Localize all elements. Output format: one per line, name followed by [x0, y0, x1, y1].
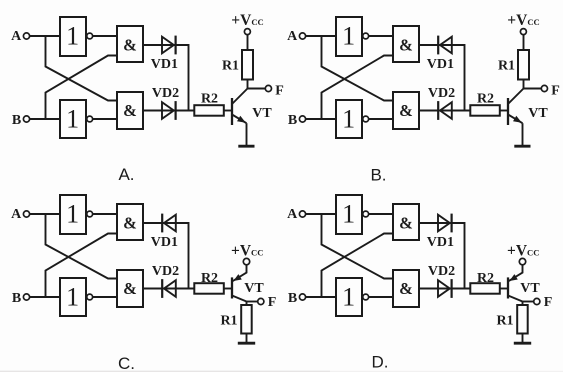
transistor VT base bar (option D): [507, 277, 509, 298]
svg-text:A: A: [287, 207, 298, 222]
wire: G2 out to R2 (option A): [143, 110, 194, 112]
inverter U2 box (option B): [336, 100, 362, 138]
svg-text:F: F: [275, 83, 284, 98]
AND gate G2 box (option C): [117, 270, 143, 307]
svg-text:R2: R2: [201, 91, 218, 106]
inverter U1 box (option C): [60, 195, 86, 234]
resistor R1 (option B): [518, 50, 529, 80]
wire: collector to F (option C): [247, 301, 258, 303]
inverter U2 output bubble (option D): [363, 294, 369, 300]
wire: A to inverter U1 (option A): [30, 35, 60, 37]
svg-text:B: B: [12, 291, 21, 306]
wire: R1 to +Vcc terminal (option A): [247, 35, 249, 50]
wire: node A down-cross to AND G2 input (option A): [46, 36, 118, 101]
svg-text:VT: VT: [528, 106, 548, 121]
ground (option A): [238, 145, 254, 148]
svg-text:VD1: VD1: [151, 235, 178, 250]
AND gate G1 box (option B): [393, 26, 419, 62]
transistor VT emitter arrow (option A): [237, 116, 246, 123]
AND gate G1 box (option A): [117, 26, 143, 62]
transistor VT base bar (option A): [231, 98, 233, 125]
transistor VT emitter arrow (option C): [233, 274, 242, 281]
diode VD1 (option A): [162, 37, 174, 54]
diode VD1 (option D): [438, 215, 450, 232]
wire: node B up-cross to AND G1 input (option C): [46, 234, 118, 298]
svg-text:&: &: [123, 213, 137, 232]
wire: collector node to R1 (option C): [246, 302, 248, 306]
svg-text:VD1: VD1: [427, 57, 454, 72]
inverter U2 output bubble (option B): [363, 116, 369, 122]
resistor R1 (option A): [242, 50, 253, 80]
transistor VT emitter lead (option C): [232, 265, 247, 282]
inverter U2 box (option D): [336, 278, 362, 316]
output terminal F (option D): [534, 298, 540, 304]
wire: R1 to +Vcc terminal (option B): [523, 35, 525, 50]
svg-text:R2: R2: [477, 271, 494, 286]
wire: U1 out to AND G1 (option B): [369, 35, 393, 37]
wire: node B up-cross to AND G1 input (option B): [322, 56, 394, 120]
wire: A to inverter U1 (option D): [306, 213, 336, 215]
inverter U1 box (option B): [336, 17, 362, 56]
inverter U1 output bubble (option C): [87, 211, 93, 217]
wire: node B up-cross to AND G1 input (option A): [46, 56, 118, 120]
svg-text:1: 1: [342, 199, 355, 228]
svg-text:VD1: VD1: [151, 57, 178, 72]
svg-text:1: 1: [342, 282, 355, 311]
resistor R1 (option D): [517, 305, 528, 334]
wire: R2 to base of VT (option B): [500, 110, 508, 112]
svg-text:F: F: [544, 295, 553, 310]
AND gate G1 box (option C): [117, 204, 143, 240]
svg-text:&: &: [123, 35, 137, 54]
svg-text:B: B: [12, 113, 21, 128]
svg-text:D.: D.: [372, 353, 389, 372]
wire: node A down-cross to AND G2 input (option B): [322, 36, 394, 101]
svg-text:A: A: [11, 29, 22, 44]
wire: G1 out through VD1 to join node (option D): [419, 223, 465, 289]
wire: A to inverter U1 (option C): [30, 213, 60, 215]
svg-text:F: F: [551, 83, 560, 98]
svg-text:1: 1: [66, 199, 79, 228]
svg-text:&: &: [123, 101, 137, 120]
transistor VT collector lead (option C): [232, 296, 247, 302]
wire: emitter down to ground (option B): [522, 123, 524, 146]
svg-text:F: F: [268, 295, 277, 310]
diode VD1 (option B): [440, 37, 452, 54]
inverter U1 output bubble (option A): [87, 33, 93, 39]
transistor VT base bar (option C): [231, 277, 233, 298]
wire: G1 out through VD1 to join node (option A): [143, 45, 189, 111]
transistor VT emitter arrow (option D): [509, 274, 518, 281]
svg-text:R1: R1: [220, 314, 237, 329]
wire: U1 out to AND G1 (option C): [93, 213, 117, 215]
transistor VT collector lead (option A): [232, 89, 248, 105]
svg-text:1: 1: [66, 104, 79, 133]
diode VD2 (option C): [164, 280, 176, 297]
svg-text:C.: C.: [118, 354, 135, 372]
transistor VT collector lead (option D): [508, 296, 523, 302]
wire: U2 out to AND G2 (option A): [93, 118, 117, 120]
diode VD1 (option C): [164, 215, 176, 232]
svg-text:VD2: VD2: [152, 86, 179, 101]
wire: collector to R1 (option B): [523, 80, 525, 89]
svg-text:B.: B.: [370, 166, 386, 185]
+Vcc terminal (option B): [520, 29, 526, 35]
transistor VT collector lead (option B): [508, 89, 524, 105]
input terminal B (option B): [299, 116, 305, 122]
wire: U1 out to AND G1 (option A): [93, 35, 117, 37]
output terminal F (option B): [541, 85, 547, 91]
wire: R2 to base of VT (option A): [224, 110, 232, 112]
svg-text:1: 1: [66, 21, 79, 50]
svg-text:+VCC: +VCC: [507, 12, 539, 29]
svg-text:A.: A.: [118, 165, 134, 184]
inverter U1 output bubble (option D): [363, 211, 369, 217]
input terminal A (option D): [299, 211, 305, 217]
ground (option D): [514, 342, 531, 345]
wire: U2 out to AND G2 (option D): [369, 296, 393, 298]
wire: B to inverter U2 (option C): [30, 296, 60, 298]
svg-text:R2: R2: [477, 91, 494, 106]
inverter U1 box (option A): [60, 17, 86, 56]
input terminal B (option A): [23, 116, 29, 122]
svg-text:1: 1: [342, 104, 355, 133]
wire: node A down-cross to AND G2 input (option C): [46, 214, 118, 279]
resistor R1 (option C): [241, 305, 252, 334]
svg-text:A: A: [11, 207, 22, 222]
transistor VT emitter lead (option B): [508, 115, 523, 124]
wire: collector to R1 (option A): [247, 80, 249, 89]
svg-text:&: &: [399, 279, 413, 298]
transistor VT base bar (option B): [507, 98, 509, 125]
svg-text:+VCC: +VCC: [231, 243, 263, 260]
wire: G1 out through VD1 to join node (option B): [419, 45, 465, 111]
resistor R2 (option A): [194, 105, 224, 116]
diode VD2 (option B): [440, 102, 452, 119]
inverter U1 output bubble (option B): [363, 33, 369, 39]
svg-text:R1: R1: [222, 58, 239, 73]
diode VD2 (option D): [438, 280, 450, 297]
svg-text:VT: VT: [520, 281, 540, 296]
svg-text:R2: R2: [201, 271, 218, 286]
transistor VT emitter arrow (option B): [513, 116, 522, 123]
+Vcc terminal (option D): [519, 258, 525, 264]
transistor VT emitter lead (option A): [232, 115, 247, 124]
inverter U2 output bubble (option C): [87, 294, 93, 300]
wire: R2 to base of VT (option C): [224, 288, 232, 290]
wire: G2 out to R2 (option D): [419, 288, 470, 290]
wire: node B up-cross to AND G1 input (option D): [322, 234, 394, 298]
AND gate G2 box (option B): [393, 92, 419, 129]
wire: collector node to R1 (option D): [522, 302, 524, 306]
svg-text:VD2: VD2: [428, 86, 455, 101]
output terminal F (option A): [265, 85, 271, 91]
input terminal B (option C): [23, 294, 29, 300]
svg-text:&: &: [399, 35, 413, 54]
wire: A to inverter U1 (option B): [306, 35, 336, 37]
diode VD2 (option A): [162, 102, 174, 119]
resistor R2 (option D): [470, 283, 500, 294]
transistor VT emitter lead (option D): [508, 265, 523, 282]
wire: G2 out to R2 (option B): [419, 110, 470, 112]
resistor R2 (option C): [194, 283, 224, 294]
wire: U2 out to AND G2 (option B): [369, 118, 393, 120]
input terminal A (option C): [23, 211, 29, 217]
input terminal A (option B): [299, 33, 305, 39]
svg-text:B: B: [288, 113, 297, 128]
+Vcc terminal (option C): [243, 258, 249, 264]
svg-text:&: &: [399, 101, 413, 120]
svg-text:A: A: [287, 29, 298, 44]
AND gate G2 box (option A): [117, 92, 143, 129]
svg-text:VD2: VD2: [152, 264, 179, 279]
wire: node A down-cross to AND G2 input (option D): [322, 214, 394, 279]
AND gate G1 box (option D): [393, 204, 419, 240]
svg-text:VD1: VD1: [427, 235, 454, 250]
wire: collector to F (option A): [248, 88, 266, 90]
wire: G2 out to R2 (option C): [143, 288, 194, 290]
output terminal F (option C): [258, 298, 264, 304]
AND gate G2 box (option D): [393, 270, 419, 307]
svg-text:+VCC: +VCC: [231, 12, 263, 29]
svg-text:R1: R1: [498, 58, 515, 73]
wire: U2 out to AND G2 (option C): [93, 296, 117, 298]
inverter U2 output bubble (option A): [87, 116, 93, 122]
+Vcc terminal (option A): [244, 29, 250, 35]
svg-text:1: 1: [66, 282, 79, 311]
svg-text:+VCC: +VCC: [507, 243, 539, 260]
wire: emitter down to ground (option A): [246, 123, 248, 146]
wire: U1 out to AND G1 (option D): [369, 213, 393, 215]
svg-text:VT: VT: [244, 281, 264, 296]
wire: B to inverter U2 (option A): [30, 118, 60, 120]
svg-text:VD2: VD2: [428, 264, 455, 279]
svg-text:1: 1: [342, 21, 355, 50]
wire: B to inverter U2 (option B): [306, 118, 336, 120]
wire: G1 out through VD1 to join node (option C): [143, 223, 189, 289]
wire: collector to F (option D): [523, 301, 534, 303]
resistor R2 (option B): [470, 105, 500, 116]
inverter U2 box (option C): [60, 278, 86, 316]
ground (option C): [238, 342, 255, 345]
input terminal B (option D): [299, 294, 305, 300]
wire: collector to F (option B): [524, 88, 542, 90]
wire: R1 to ground (option C): [246, 334, 248, 344]
wire: R2 to base of VT (option D): [500, 288, 508, 290]
svg-text:&: &: [399, 213, 413, 232]
input terminal A (option A): [23, 33, 29, 39]
inverter U2 box (option A): [60, 100, 86, 138]
wire: R1 to ground (option D): [522, 334, 524, 344]
svg-text:B: B: [288, 291, 297, 306]
svg-text:R1: R1: [496, 314, 513, 329]
inverter U1 box (option D): [336, 195, 362, 234]
svg-text:VT: VT: [252, 106, 272, 121]
svg-text:&: &: [123, 279, 137, 298]
wire: B to inverter U2 (option D): [306, 296, 336, 298]
ground (option B): [514, 145, 530, 148]
